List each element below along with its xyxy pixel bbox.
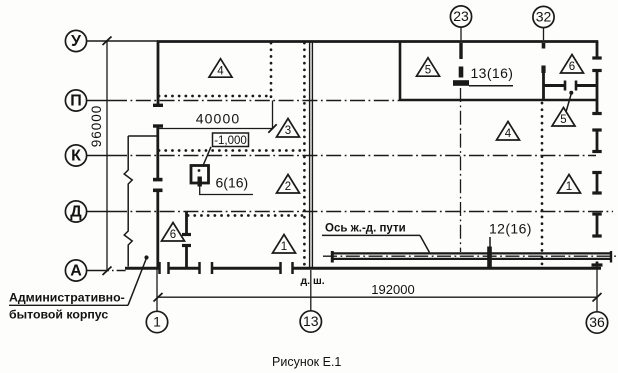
dotted vertical x=542 axis32 <box>541 103 544 265</box>
svg-text:12(16): 12(16) <box>489 221 532 237</box>
svg-text:П: П <box>70 93 82 110</box>
building right wall x=597 segments <box>596 42 599 267</box>
axis 13 circle <box>300 311 321 332</box>
dotted row П level <box>159 95 271 98</box>
axis circle К <box>65 145 86 166</box>
triangle 2 <box>277 175 300 194</box>
axis 1 circle <box>146 311 167 332</box>
right wall caps <box>592 58 603 265</box>
axis line П <box>87 100 400 102</box>
svg-text:32: 32 <box>536 9 552 25</box>
svg-text:К: К <box>71 148 81 165</box>
svg-text:5: 5 <box>425 64 431 76</box>
svg-text:6(16): 6(16) <box>216 175 249 191</box>
label Ось ж.-д. пути <box>322 223 430 253</box>
room6 leader dot <box>569 91 573 95</box>
triangle 6 lower left <box>162 223 185 242</box>
left wall cap <box>153 189 163 193</box>
double wall along axis 13 <box>310 42 313 269</box>
svg-text:3: 3 <box>285 125 291 137</box>
railway rails <box>332 253 612 259</box>
svg-text:5: 5 <box>560 114 566 126</box>
left wall cap <box>153 124 163 127</box>
axis 36 circle <box>586 312 607 333</box>
dotted vertical x=271 room4 boundary <box>270 43 273 97</box>
axis 32 wall ticks <box>542 43 546 49</box>
svg-text:6: 6 <box>569 61 575 73</box>
room6 door jambs <box>565 81 576 91</box>
triangle 3 <box>277 119 300 138</box>
building left wall x=158 upper segment <box>157 42 160 106</box>
axis circle Д <box>65 201 86 222</box>
axis circle У <box>65 30 86 51</box>
svg-text:Д: Д <box>70 204 82 221</box>
triangle 5 upper middle <box>417 58 440 77</box>
dimension 40000 <box>158 101 277 133</box>
svg-text:36: 36 <box>589 314 605 330</box>
axis line К <box>87 155 596 157</box>
dimension line 96000 vertical <box>89 37 112 276</box>
svg-text:13: 13 <box>303 313 319 329</box>
triangle 1 right <box>558 175 581 194</box>
triangle 1 lower middle <box>273 235 296 254</box>
triangle 4 room upper left <box>209 59 232 78</box>
triangle 5 right <box>552 108 575 127</box>
level mark -1,000 box <box>204 133 249 165</box>
building top edge wall <box>157 40 598 43</box>
dotted row Д level <box>188 214 303 217</box>
left wall cap <box>153 178 163 182</box>
svg-text:6: 6 <box>170 229 176 241</box>
svg-text:бытовой корпус: бытовой корпус <box>9 308 108 322</box>
svg-text:д. ш.: д. ш. <box>301 275 325 287</box>
svg-text:А: А <box>70 263 82 280</box>
axis 23 wall bars <box>459 43 462 59</box>
monument square symbol 6(16) <box>191 166 253 195</box>
svg-text:40000: 40000 <box>196 111 240 127</box>
bottom wall end ticks <box>160 262 293 274</box>
railway centerline <box>323 255 616 257</box>
bottom wall А level <box>125 267 601 270</box>
axis line Д <box>87 211 613 213</box>
axis 32 circle <box>533 6 554 27</box>
svg-text:Административно-: Административно- <box>9 291 125 305</box>
dimension 192000 <box>154 282 602 302</box>
label Административно-бытовой корпус <box>9 255 149 321</box>
axis circle П <box>65 90 86 111</box>
svg-text:1: 1 <box>153 314 161 330</box>
axis circle А <box>65 260 86 281</box>
svg-text:96000: 96000 <box>89 105 104 148</box>
axis line У <box>87 40 158 42</box>
axis 23 crossbar 13(16) mark <box>453 80 469 86</box>
dotted row К level <box>159 149 302 152</box>
axis 13 line <box>310 270 312 311</box>
svg-text:4: 4 <box>505 128 512 140</box>
railway marker bar 12(16) <box>487 247 492 268</box>
building left wall lower segment <box>156 190 159 268</box>
building left wall middle segment <box>156 126 159 179</box>
left wall cap <box>153 104 163 107</box>
axis line А <box>87 270 127 272</box>
axis 32 wall segment <box>542 73 545 100</box>
svg-text:-1,000: -1,000 <box>214 135 247 147</box>
svg-text:2: 2 <box>285 181 291 193</box>
axis 32 line to building <box>543 28 545 40</box>
svg-text:23: 23 <box>453 8 469 24</box>
railway end caps <box>331 251 334 263</box>
svg-text:Рисунок Е.1: Рисунок Е.1 <box>272 355 341 369</box>
axis 23 line to building <box>460 27 462 40</box>
svg-text:1: 1 <box>566 181 572 193</box>
wall caps x=186 <box>182 235 191 246</box>
dotted line left of axis 13 wall <box>303 43 306 266</box>
room5 left wall <box>399 42 402 101</box>
room6 door wall <box>544 84 597 87</box>
room5 bottom wall П level <box>400 99 598 102</box>
svg-text:Ось ж.-д. пути: Ось ж.-д. пути <box>325 223 406 235</box>
admin building left wall with break marks <box>124 136 132 267</box>
axis 23 circle <box>450 6 471 27</box>
label 13(16) <box>469 65 513 86</box>
axis 23 dash-dot line <box>460 88 462 252</box>
svg-text:13(16): 13(16) <box>471 65 514 81</box>
svg-text:4: 4 <box>217 65 224 77</box>
svg-text:1: 1 <box>281 241 287 253</box>
svg-text:У: У <box>71 33 82 50</box>
axis 36 line <box>596 267 598 312</box>
leader to triangle 5 <box>566 94 571 113</box>
axis 32 wall cap bar <box>541 66 545 74</box>
admin building top edge <box>128 135 157 137</box>
svg-text:192000: 192000 <box>371 282 414 297</box>
triangle 6 upper right <box>561 55 584 74</box>
triangle 4 right <box>497 122 520 141</box>
interior wall x=186 below Д <box>185 212 188 268</box>
axis 1 line <box>156 268 158 311</box>
label 12(16) <box>489 221 532 249</box>
